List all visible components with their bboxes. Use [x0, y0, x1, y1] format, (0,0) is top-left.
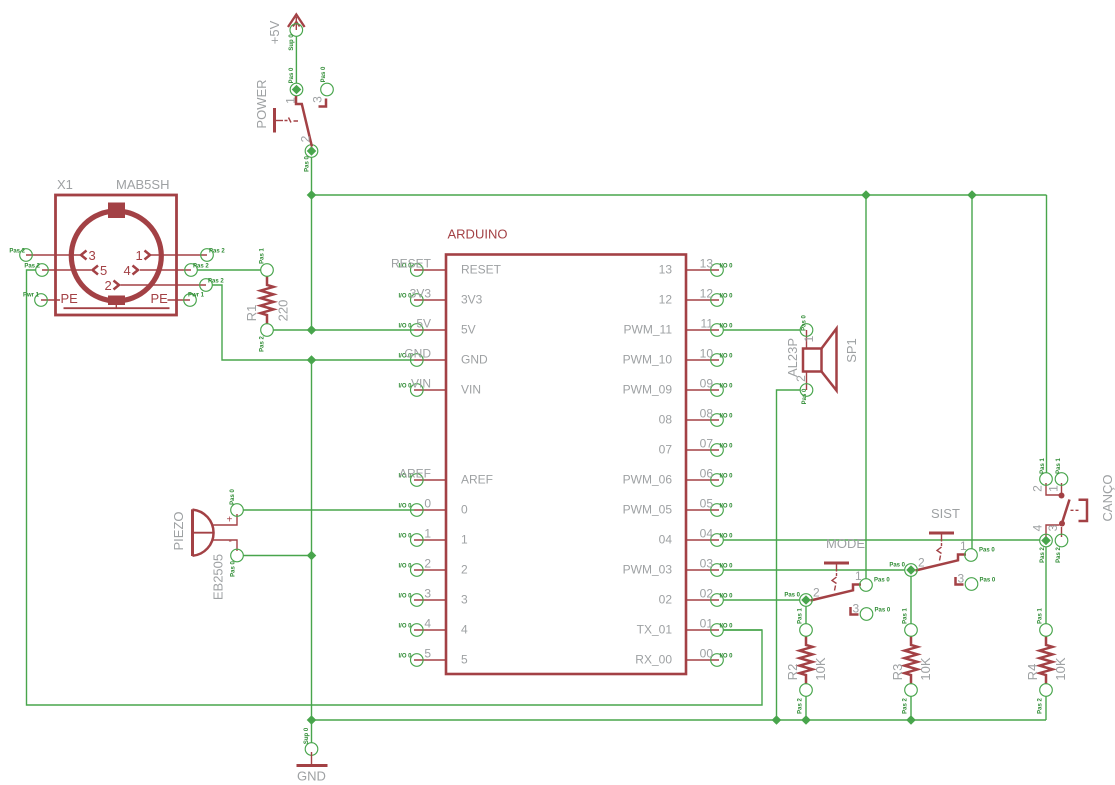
- svg-text:06: 06: [700, 467, 714, 481]
- svg-text:ARDUINO: ARDUINO: [448, 227, 508, 242]
- wire SIST pin2 to R3: [910, 576, 912, 623]
- svg-text:2: 2: [105, 278, 112, 293]
- MODE pin3 hook: [851, 607, 859, 615]
- CANCO pin 2: [1040, 473, 1053, 486]
- svg-text:Pas 2: Pas 2: [1040, 547, 1046, 563]
- resistor R2 10K: [785, 608, 828, 714]
- wire MODE pin2 to R2: [805, 606, 807, 623]
- ARDUINO pin GND (left): [399, 347, 489, 367]
- svg-text:Pas 2: Pas 2: [903, 698, 909, 714]
- svg-text:PE: PE: [151, 291, 169, 306]
- svg-text:Pas 1: Pas 1: [1040, 458, 1046, 474]
- wire X1 pin2 to ARDUINO GND: [212, 285, 414, 360]
- svg-text:TX_01: TX_01: [637, 623, 673, 637]
- svg-text:1: 1: [1047, 485, 1061, 492]
- X1 pin number arrows: [81, 251, 87, 260]
- ARDUINO pin 02 (right): [659, 587, 734, 607]
- wire SP1 pin2 to GND bus: [777, 390, 801, 720]
- svg-text:Pas 1: Pas 1: [1056, 458, 1062, 474]
- svg-text:12: 12: [659, 293, 673, 307]
- ARDUINO pin 3V3 (left): [399, 287, 483, 307]
- IC U1 ARDUINO: [446, 227, 686, 675]
- wire ARDUINO 11 to SP1 pin1: [723, 329, 800, 331]
- supply +5V symbol: [267, 15, 305, 51]
- ARDUINO pin 1 (left): [399, 527, 469, 547]
- svg-text:GND: GND: [404, 347, 431, 361]
- svg-text:R1: R1: [244, 305, 259, 322]
- wire CANCO pin4 to R4: [1045, 547, 1047, 624]
- svg-text:I/O 0: I/O 0: [720, 324, 734, 330]
- svg-text:2: 2: [813, 586, 820, 600]
- svg-text:I/O 0: I/O 0: [399, 504, 413, 510]
- wire PIEZO - to GND rail: [243, 555, 311, 557]
- ARDUINO pin VIN (left): [399, 377, 482, 397]
- wire net 04 to CANCO pin4: [723, 539, 1040, 541]
- svg-text:+5V: +5V: [267, 20, 282, 44]
- svg-text:Pas 2: Pas 2: [208, 279, 224, 285]
- wire R1 bottom to ARDUINO 5V: [273, 329, 414, 331]
- MODE lever: [811, 585, 862, 601]
- ARDUINO pin 12 (right): [659, 287, 734, 307]
- ARDUINO pin RESET (left): [391, 257, 502, 277]
- ARDUINO pin 3 (left): [399, 587, 469, 607]
- wire R3 to bus: [910, 696, 912, 720]
- svg-text:I/O 0: I/O 0: [720, 534, 734, 540]
- resistor R3 10K: [890, 608, 933, 714]
- ARDUINO pin 0 (left): [399, 497, 469, 517]
- svg-text:Pas 0: Pas 0: [802, 388, 808, 404]
- CANCO red links: [1046, 483, 1060, 495]
- wire top +5V bus: [312, 194, 1047, 196]
- svg-text:03: 03: [700, 557, 714, 571]
- wire net 02 to MODE pin2: [723, 599, 799, 601]
- SIST pin 3: [965, 578, 978, 591]
- wire PIEZO + to ARDUINO pin0: [243, 509, 414, 511]
- MODE pin 2: [800, 594, 813, 607]
- svg-text:I/O 0: I/O 0: [720, 444, 734, 450]
- svg-text:Pas 2: Pas 2: [260, 336, 266, 352]
- svg-text:220: 220: [276, 300, 291, 322]
- SIST pin 1: [965, 549, 978, 562]
- junction bus x806: [801, 715, 811, 725]
- CANCO actuator: [1079, 500, 1088, 521]
- svg-text:PWM_09: PWM_09: [623, 383, 673, 397]
- svg-text:+: +: [227, 515, 233, 526]
- SIST pin 2: [905, 564, 918, 577]
- X1 top notch: [108, 203, 125, 219]
- ARDUINO pin 07 (right): [659, 437, 734, 457]
- svg-text:I/O 0: I/O 0: [720, 474, 734, 480]
- svg-text:Pwr 1: Pwr 1: [23, 293, 40, 299]
- ARDUINO pin 11 (right): [624, 317, 734, 337]
- X1 pin 3 stub: [26, 254, 80, 256]
- svg-text:Pas 0: Pas 0: [321, 66, 327, 82]
- svg-text:3V3: 3V3: [410, 287, 432, 301]
- svg-text:I/O 0: I/O 0: [399, 324, 413, 330]
- svg-text:RESET: RESET: [461, 263, 502, 277]
- svg-text:SIST: SIST: [931, 506, 960, 521]
- svg-text:1: 1: [136, 248, 143, 263]
- ARDUINO pin 09 (right): [623, 377, 734, 397]
- ARDUINO pin 08 (right): [659, 407, 734, 427]
- svg-text:3: 3: [424, 587, 431, 601]
- X1 DIN ring: [71, 211, 161, 301]
- svg-text:4: 4: [124, 263, 131, 278]
- wire GND rail down: [311, 360, 313, 720]
- svg-text:1: 1: [855, 569, 862, 583]
- svg-text:I/O 0: I/O 0: [399, 564, 413, 570]
- svg-text:1: 1: [461, 533, 468, 547]
- wire R2 to bus: [805, 696, 807, 720]
- svg-text:05: 05: [700, 497, 714, 511]
- X1 bottom notch: [108, 296, 125, 306]
- svg-text:10K: 10K: [918, 657, 933, 680]
- svg-text:Pas 2: Pas 2: [209, 249, 225, 255]
- svg-text:EB2505: EB2505: [211, 554, 226, 600]
- SP1 pin 1: [806, 330, 808, 349]
- ARDUINO pin 5V (left): [399, 317, 476, 337]
- svg-text:04: 04: [659, 533, 673, 547]
- svg-text:RESET: RESET: [391, 257, 432, 271]
- svg-text:1: 1: [424, 527, 431, 541]
- junction 5V at x311: [307, 325, 317, 335]
- svg-text:MAB5SH: MAB5SH: [116, 177, 169, 192]
- svg-text:I/O 0: I/O 0: [720, 654, 734, 660]
- svg-text:13: 13: [700, 257, 714, 271]
- X1 pin 1 stub: [151, 254, 207, 256]
- svg-text:07: 07: [659, 443, 673, 457]
- switch POWER (S1): [254, 66, 333, 172]
- node top bus junction at power: [307, 190, 317, 200]
- svg-text:Pas 2: Pas 2: [24, 264, 40, 270]
- ARDUINO pin 00 (right): [635, 647, 733, 667]
- svg-text:Pas 1: Pas 1: [1038, 608, 1044, 624]
- svg-text:08: 08: [659, 413, 673, 427]
- svg-text:Pas 2: Pas 2: [193, 264, 209, 270]
- ARDUINO pin 2 (left): [399, 557, 469, 577]
- X1 PE left endpoint: [35, 294, 48, 307]
- svg-text:Pas 0: Pas 0: [784, 593, 800, 599]
- svg-text:3: 3: [89, 248, 96, 263]
- X1 pin 2 stub: [121, 284, 207, 286]
- ARDUINO pin 5 (left): [399, 647, 469, 667]
- svg-text:Pas 2: Pas 2: [9, 249, 25, 255]
- svg-text:2: 2: [461, 563, 468, 577]
- speaker SP1 AL23P: [785, 315, 859, 405]
- svg-text:1: 1: [284, 97, 298, 104]
- ARDUINO pin 10 (right): [623, 347, 734, 367]
- svg-text:Pas 2: Pas 2: [1038, 698, 1044, 714]
- svg-text:Pas 0: Pas 0: [889, 563, 905, 569]
- svg-text:X1: X1: [57, 177, 73, 192]
- junction bus x776: [772, 715, 782, 725]
- CANCO pin 1: [1055, 473, 1068, 486]
- connector X1 MAB5SH: [9, 177, 225, 315]
- svg-text:CANÇO: CANÇO: [1100, 475, 1115, 522]
- svg-text:I/O 0: I/O 0: [399, 654, 413, 660]
- MODE pin 3: [860, 608, 873, 621]
- svg-text:PWM_03: PWM_03: [623, 563, 673, 577]
- ground GND: [297, 720, 328, 784]
- SIST pin3 hook: [956, 577, 964, 585]
- svg-text:04: 04: [700, 527, 714, 541]
- ARDUINO pin 03 (right): [623, 557, 734, 577]
- svg-text:GND: GND: [461, 353, 488, 367]
- svg-text:Pwr 1: Pwr 1: [188, 293, 205, 299]
- svg-text:Pas 0: Pas 0: [289, 67, 295, 83]
- svg-text:PE: PE: [61, 291, 79, 306]
- svg-text:10K: 10K: [1053, 657, 1068, 680]
- junction top bus x972: [967, 190, 977, 200]
- svg-text:I/O 0: I/O 0: [399, 594, 413, 600]
- svg-text:5: 5: [100, 263, 107, 278]
- switch MODE: [784, 536, 891, 620]
- svg-text:11: 11: [701, 317, 714, 331]
- svg-text:-: -: [229, 536, 232, 547]
- svg-text:I/O 0: I/O 0: [399, 534, 413, 540]
- svg-text:I/O 0: I/O 0: [720, 384, 734, 390]
- MODE actuator: [824, 562, 849, 565]
- svg-text:5: 5: [424, 647, 431, 661]
- CANCO lever: [1062, 500, 1070, 524]
- svg-text:I/O 0: I/O 0: [720, 564, 734, 570]
- wire POWER pin2 down to top bus: [311, 157, 313, 330]
- SIST lever: [916, 555, 967, 571]
- svg-text:Pas 1: Pas 1: [903, 608, 909, 624]
- ARDUINO pin 13 (right): [659, 257, 734, 277]
- svg-text:AREF: AREF: [399, 467, 431, 481]
- svg-text:I/O 0: I/O 0: [720, 624, 734, 630]
- PIEZO pin -: [214, 540, 238, 551]
- svg-text:PWM_05: PWM_05: [623, 503, 673, 517]
- svg-text:PIEZO: PIEZO: [171, 511, 186, 550]
- svg-text:Pas 0: Pas 0: [979, 548, 995, 554]
- svg-text:Sup 0: Sup 0: [289, 34, 295, 51]
- ARDUINO pin 01 (right): [637, 617, 734, 637]
- svg-text:2: 2: [918, 556, 925, 570]
- svg-text:Pas 0: Pas 0: [875, 608, 891, 614]
- svg-text:1: 1: [960, 539, 967, 553]
- junction piezo gnd: [307, 551, 317, 561]
- svg-text:0: 0: [461, 503, 468, 517]
- SIST actuator: [929, 532, 954, 535]
- svg-text:MODE: MODE: [826, 536, 865, 551]
- X1 pin 4 stub: [140, 269, 191, 271]
- POWER actuator: [273, 108, 276, 133]
- svg-text:4: 4: [461, 623, 468, 637]
- svg-text:Pas 0: Pas 0: [305, 156, 311, 172]
- ARDUINO pin AREF (left): [399, 467, 494, 487]
- X1 pin 3 endpoint: [20, 249, 33, 262]
- X1 PE stubs: [41, 299, 60, 301]
- MODE pin 1: [860, 579, 873, 592]
- svg-text:12: 12: [700, 287, 714, 301]
- svg-text:I/O 0: I/O 0: [720, 264, 734, 270]
- svg-text:13: 13: [659, 263, 673, 277]
- wire bottom GND bus: [312, 719, 1047, 721]
- svg-text:AL23P: AL23P: [785, 338, 800, 377]
- wire X1 pin5 to TX net: [27, 270, 763, 705]
- junction top bus x866: [861, 190, 871, 200]
- POWER lever: [296, 96, 312, 147]
- svg-text:POWER: POWER: [254, 79, 269, 128]
- svg-text:5V: 5V: [416, 317, 431, 331]
- wire +5V drop to SIST pin1: [971, 195, 973, 549]
- svg-text:3: 3: [311, 96, 325, 103]
- svg-text:10: 10: [700, 347, 714, 361]
- svg-text:R4: R4: [1025, 664, 1040, 681]
- X1 pin 5 endpoint: [36, 264, 49, 277]
- svg-text:Sup 0: Sup 0: [304, 727, 310, 744]
- wire net PWM_03 to SIST pin2: [723, 569, 904, 571]
- svg-text:02: 02: [700, 587, 714, 601]
- svg-text:4: 4: [424, 617, 431, 631]
- svg-text:1: 1: [802, 335, 816, 342]
- svg-text:Pas 1: Pas 1: [798, 608, 804, 624]
- wire net TX_01: [723, 629, 762, 631]
- svg-text:GND: GND: [297, 769, 326, 784]
- junction bus x911: [906, 715, 916, 725]
- svg-text:R2: R2: [785, 664, 800, 681]
- svg-text:I/O 0: I/O 0: [720, 354, 734, 360]
- resistor R4 10K: [1025, 608, 1068, 714]
- junction GND at x311: [307, 355, 317, 365]
- ARDUINO pin 05 (right): [623, 497, 734, 517]
- svg-text:02: 02: [659, 593, 673, 607]
- svg-text:3: 3: [958, 572, 965, 586]
- svg-text:Pas 0: Pas 0: [230, 489, 236, 505]
- svg-text:VIN: VIN: [461, 383, 481, 397]
- buzzer PIEZO EB2505: [171, 489, 243, 601]
- X1 pin 4 endpoint: [185, 264, 198, 277]
- CANCO pin 3: [1055, 534, 1068, 547]
- X1 PE right endpoint: [184, 294, 197, 307]
- svg-text:R3: R3: [890, 664, 905, 681]
- resistor R1 220: [244, 248, 291, 352]
- svg-text:4: 4: [1031, 524, 1045, 531]
- svg-text:Pas 1: Pas 1: [260, 248, 266, 264]
- svg-text:Pas 0: Pas 0: [802, 315, 808, 331]
- svg-text:Pas 2: Pas 2: [798, 698, 804, 714]
- SP1 pin 2: [806, 372, 808, 391]
- svg-text:01: 01: [700, 617, 714, 631]
- svg-text:Pas 2: Pas 2: [1056, 547, 1062, 563]
- X1 pin 5 stub: [42, 269, 91, 271]
- junction bus x311: [307, 715, 317, 725]
- svg-text:3: 3: [853, 602, 860, 616]
- svg-text:0: 0: [424, 497, 431, 511]
- svg-text:3: 3: [1046, 524, 1060, 531]
- svg-text:AREF: AREF: [461, 473, 493, 487]
- X1 pin 1 endpoint: [201, 249, 214, 262]
- svg-text:VIN: VIN: [411, 377, 431, 391]
- wire +5V drop to MODE pin1: [865, 195, 867, 579]
- svg-text:3: 3: [461, 593, 468, 607]
- svg-text:I/O 0: I/O 0: [399, 624, 413, 630]
- svg-text:I/O 0: I/O 0: [720, 594, 734, 600]
- X1 PE bar: [64, 307, 170, 309]
- svg-text:5V: 5V: [461, 323, 476, 337]
- wire +5V drop to CANCO pin2: [1046, 195, 1048, 473]
- svg-text:00: 00: [700, 647, 714, 661]
- svg-text:Pas 0: Pas 0: [874, 578, 890, 584]
- svg-text:RX_00: RX_00: [635, 653, 672, 667]
- X1 pin 2 endpoint: [200, 279, 213, 292]
- POWER pin 3 hook: [319, 99, 327, 107]
- svg-text:PWM_11: PWM_11: [624, 323, 673, 337]
- PIEZO pin +: [214, 514, 238, 525]
- svg-text:Pas 0: Pas 0: [980, 578, 996, 584]
- wire R4 to bus: [1045, 696, 1047, 720]
- wire +5V to POWER switch pin 1: [295, 36, 297, 83]
- switch CANCO: [1031, 458, 1115, 563]
- svg-text:08: 08: [700, 407, 714, 421]
- svg-text:07: 07: [700, 437, 714, 451]
- svg-text:Pas 0: Pas 0: [231, 561, 237, 577]
- ARDUINO pin 06 (right): [623, 467, 734, 487]
- svg-text:3V3: 3V3: [461, 293, 483, 307]
- svg-text:09: 09: [700, 377, 714, 391]
- svg-text:PWM_10: PWM_10: [623, 353, 673, 367]
- wire X1 pin4 to R1 top: [197, 269, 260, 271]
- svg-text:10K: 10K: [813, 657, 828, 680]
- ARDUINO pin 4 (left): [399, 617, 469, 637]
- svg-text:SP1: SP1: [844, 338, 859, 363]
- svg-text:2: 2: [1031, 485, 1045, 492]
- svg-text:I/O 0: I/O 0: [720, 294, 734, 300]
- ARDUINO pin 04 (right): [659, 527, 734, 547]
- svg-text:I/O 0: I/O 0: [720, 414, 734, 420]
- svg-text:2: 2: [299, 135, 313, 142]
- svg-text:2: 2: [424, 557, 431, 571]
- svg-text:PWM_06: PWM_06: [623, 473, 673, 487]
- svg-text:5: 5: [461, 653, 468, 667]
- CANCO pin 4: [1040, 534, 1053, 547]
- switch SIST: [889, 506, 996, 590]
- svg-text:I/O 0: I/O 0: [720, 504, 734, 510]
- SP1 horn: [822, 329, 837, 391]
